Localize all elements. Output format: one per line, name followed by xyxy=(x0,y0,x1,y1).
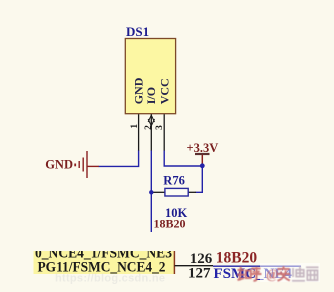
svg-text:GND: GND xyxy=(45,158,73,172)
wire pin3 to +3.3V node xyxy=(164,151,202,167)
pin 3 xyxy=(163,114,165,151)
resistor R76 xyxy=(153,188,196,196)
MCU body right border xyxy=(173,251,175,274)
pin 2 I/O direction arrow xyxy=(148,115,154,126)
char 西 xyxy=(306,267,319,280)
svg-text:R76: R76 xyxy=(163,174,185,188)
svg-text:2: 2 xyxy=(144,125,154,130)
junction node at +3.3V xyxy=(200,163,205,168)
pin 1 xyxy=(138,114,140,151)
svg-text:18B20: 18B20 xyxy=(154,216,186,230)
wire pin2 to resistor junction and down xyxy=(150,151,152,233)
svg-text:1: 1 xyxy=(130,124,140,129)
svg-text:https://blog.csdn.ne: https://blog.csdn.ne xyxy=(55,273,165,285)
char 迪 xyxy=(292,266,305,281)
site watermark backdrop xyxy=(260,263,320,282)
char 安 xyxy=(277,266,290,281)
MCU body fragment (bottom) xyxy=(34,251,176,274)
svg-text:126: 126 xyxy=(190,251,213,267)
power port +3.3V xyxy=(187,141,219,166)
svg-text:18B20: 18B20 xyxy=(216,249,258,266)
junction node at resistor left xyxy=(149,190,153,194)
wire pin1 to GND xyxy=(99,151,139,167)
svg-text:I/O: I/O xyxy=(144,87,158,104)
char 知 xyxy=(237,267,251,281)
wire net 18B20 (blue) xyxy=(213,265,301,267)
pin 2 xyxy=(150,114,152,151)
svg-text:127: 127 xyxy=(188,265,211,281)
site watermark 知乎 @安迪西 (approximated strokes) xyxy=(237,266,319,281)
svg-text:3: 3 xyxy=(155,125,165,130)
wire +3.3V node down to resistor xyxy=(196,166,203,193)
char 乎 xyxy=(251,267,262,281)
component U DS1 body xyxy=(125,39,175,114)
svg-text:DS1: DS1 xyxy=(126,24,149,39)
svg-text:VCC: VCC xyxy=(157,78,171,104)
pin 126 wire xyxy=(175,265,214,267)
svg-text:@: @ xyxy=(266,267,279,282)
ground symbol GND xyxy=(75,151,99,178)
